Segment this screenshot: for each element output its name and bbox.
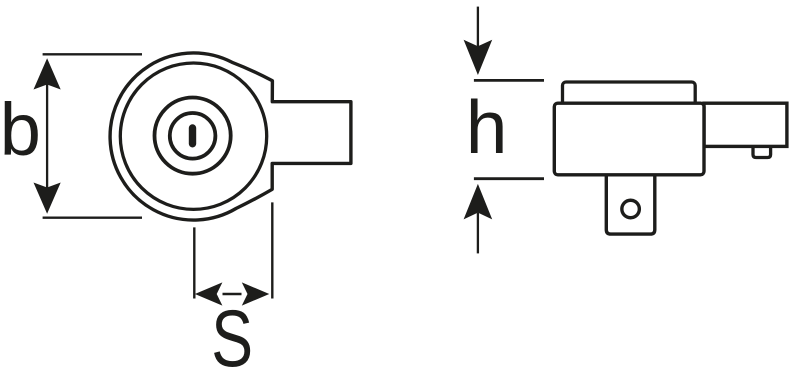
svg-text:b: b	[0, 88, 41, 171]
svg-text:h: h	[466, 85, 508, 169]
svg-text:S: S	[211, 294, 253, 380]
